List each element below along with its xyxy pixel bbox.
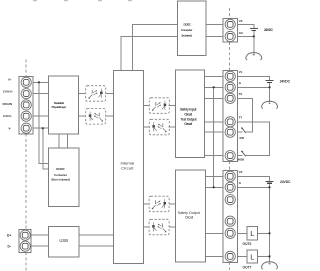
- svg-text:IN39: IN39: [238, 157, 245, 161]
- svg-text:T7: T7: [239, 115, 243, 119]
- svg-text:OUT7: OUT7: [243, 266, 252, 270]
- svg-text:CAN L: CAN L: [3, 114, 12, 118]
- svg-text:V0: V0: [239, 19, 243, 23]
- svg-text:V1: V1: [239, 70, 243, 74]
- svg-text:Test Output: Test Output: [181, 117, 198, 121]
- svg-text:Converter: Converter: [54, 173, 68, 177]
- svg-text:T0: T0: [239, 92, 243, 96]
- svg-text:V-: V-: [8, 126, 11, 130]
- svg-text:Circuit: Circuit: [121, 166, 134, 171]
- svg-text:V+: V+: [8, 77, 12, 81]
- svg-text:D-: D-: [8, 245, 11, 249]
- svg-text:DRAIN: DRAIN: [3, 102, 13, 106]
- svg-text:D+: D+: [7, 234, 11, 238]
- svg-text:IN0: IN0: [240, 136, 245, 140]
- svg-text:V2: V2: [239, 170, 243, 174]
- svg-text:24VDC: 24VDC: [280, 80, 291, 84]
- svg-text:G: G: [239, 181, 242, 185]
- svg-text:Safety Input: Safety Input: [180, 107, 197, 111]
- svg-text:G0: G0: [239, 31, 243, 35]
- svg-text:Circuit: Circuit: [184, 112, 193, 116]
- svg-text:OUT0: OUT0: [243, 242, 252, 246]
- svg-text:DC/DC: DC/DC: [56, 167, 65, 171]
- svg-text:DC/DC: DC/DC: [183, 23, 191, 27]
- svg-text:Converter: Converter: [181, 28, 193, 32]
- svg-text:Circuit: Circuit: [184, 122, 193, 126]
- svg-text:CAN H: CAN H: [3, 90, 13, 94]
- svg-text:L: L: [250, 229, 254, 238]
- svg-text:24VDC: 24VDC: [264, 28, 274, 32]
- svg-text:G: G: [239, 81, 242, 85]
- svg-text:(Isolated): (Isolated): [181, 33, 192, 37]
- svg-text:Safety Output: Safety Output: [178, 211, 200, 215]
- svg-text:(Non Isolated): (Non Isolated): [51, 178, 70, 182]
- svg-text:Circuit: Circuit: [185, 216, 193, 220]
- svg-text:Physical Layer: Physical Layer: [52, 105, 67, 109]
- svg-text:USB: USB: [59, 238, 68, 243]
- svg-text:24VDC: 24VDC: [280, 180, 291, 184]
- svg-text:L: L: [250, 252, 254, 261]
